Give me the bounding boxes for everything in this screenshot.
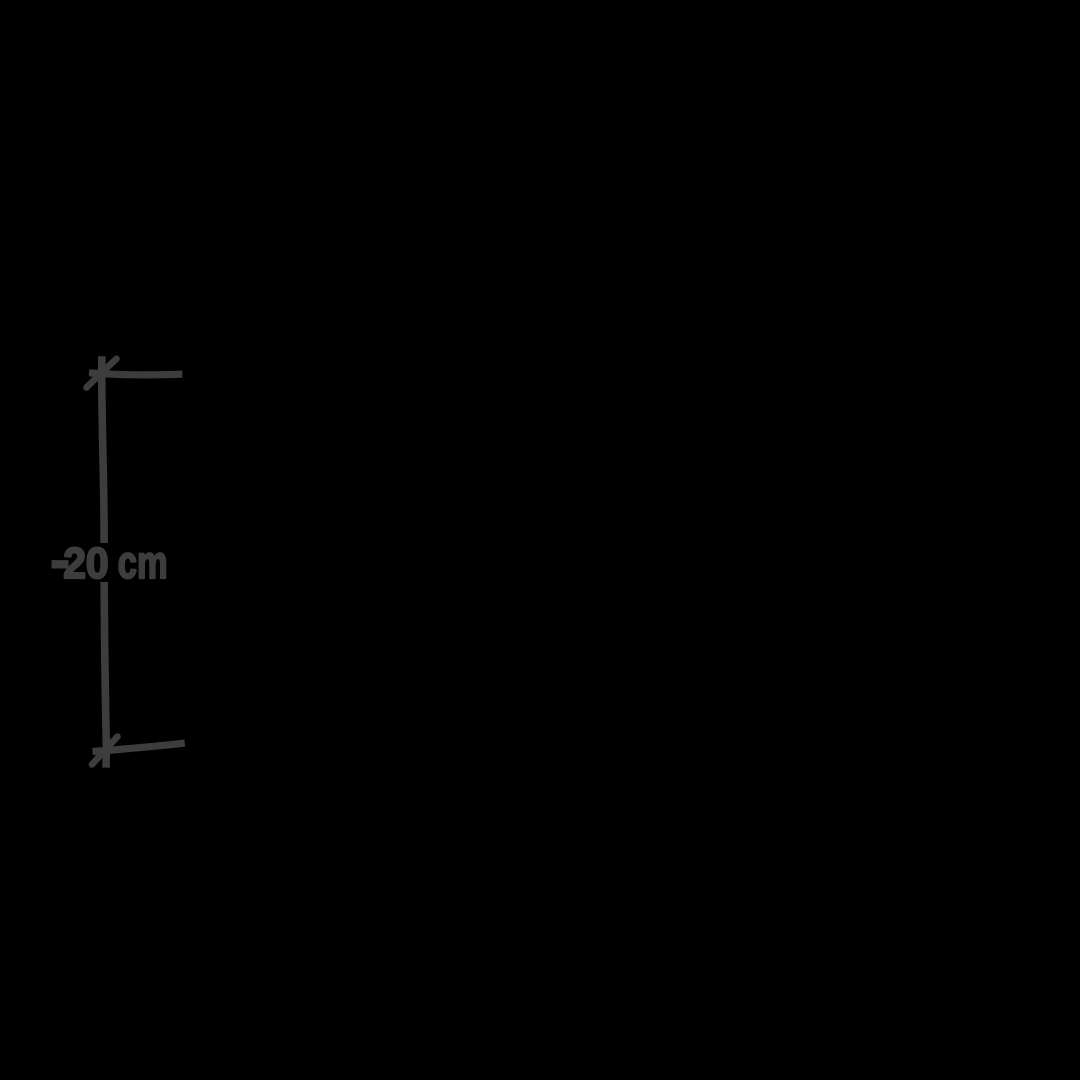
wire dimension line lower segment — [104, 582, 106, 768]
wire bottom tick slash — [92, 737, 118, 765]
svg-text:20: 20 — [63, 540, 108, 588]
wire bottom extension line — [93, 743, 185, 751]
svg-text:cm: cm — [118, 536, 168, 588]
wire top tick slash — [87, 359, 117, 388]
value label minus sign — [52, 560, 69, 568]
wire top extension line — [89, 373, 182, 375]
wire dimension line upper segment — [102, 356, 104, 543]
